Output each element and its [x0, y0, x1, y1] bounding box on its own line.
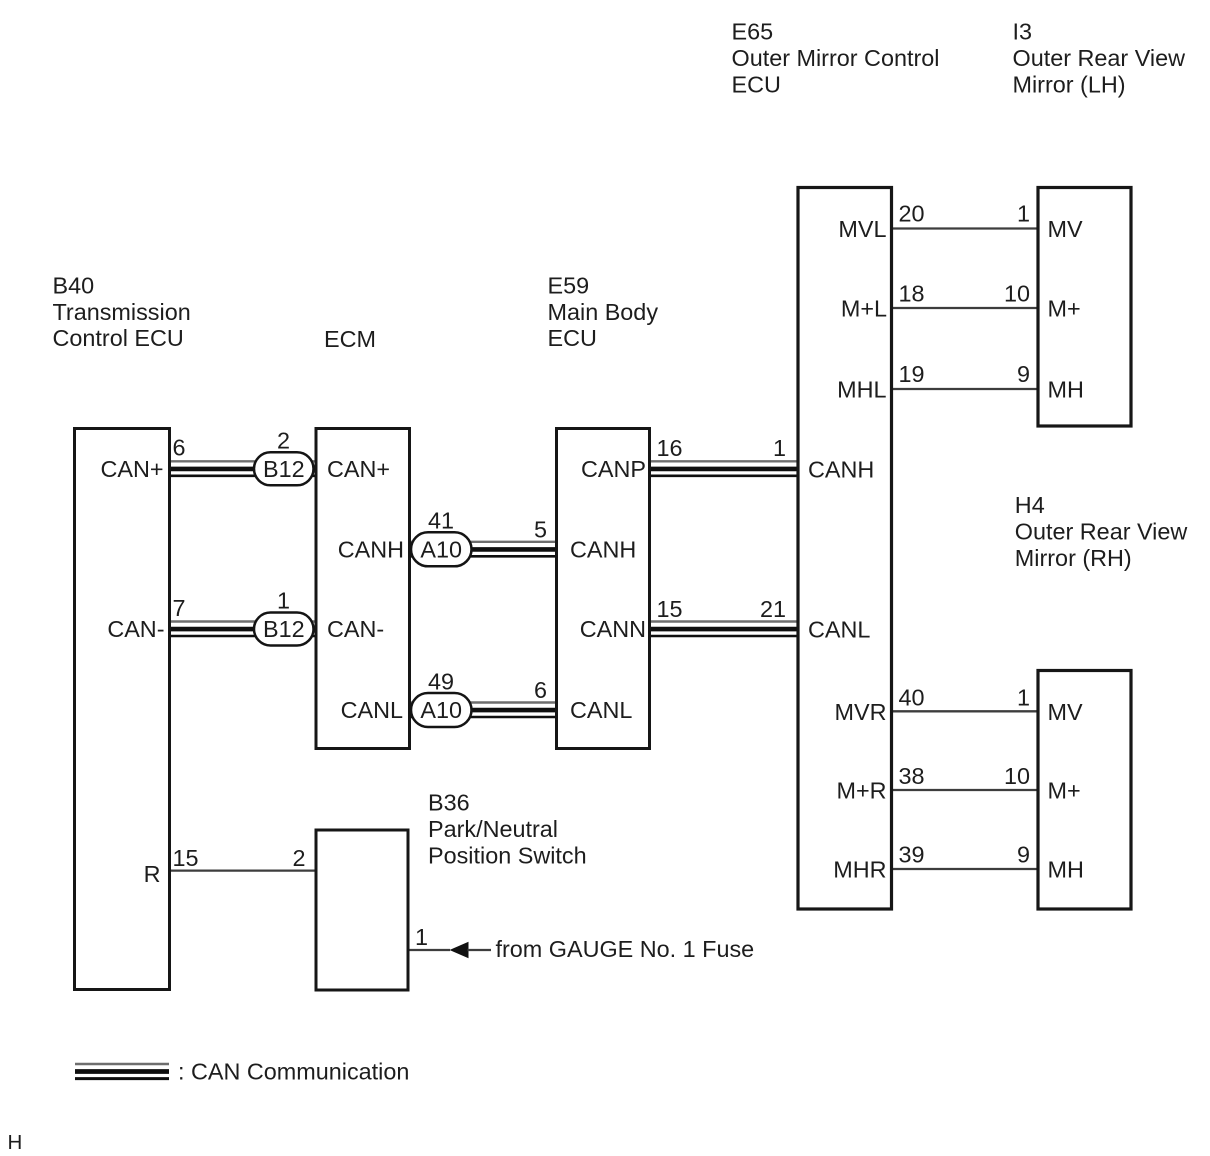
- label header I3 Outer Rear View Mirror (LH): [1013, 19, 1186, 98]
- svg-text:A10: A10: [420, 537, 462, 563]
- svg-text:49: 49: [428, 669, 454, 695]
- svg-text:R: R: [144, 861, 161, 887]
- svg-text:Transmission: Transmission: [53, 299, 191, 325]
- arrow from GAUGE No.1 Fuse: [450, 942, 469, 959]
- svg-text:18: 18: [899, 281, 925, 307]
- label header E65 Outer Mirror Control ECU: [732, 19, 940, 98]
- svg-text:Main Body: Main Body: [548, 299, 659, 325]
- svg-text:1: 1: [773, 435, 786, 461]
- svg-text:CAN-: CAN-: [327, 616, 384, 642]
- svg-text:MHL: MHL: [837, 377, 886, 403]
- wire CANP (E59 pin16 to E65 pin1 CANH, CAN bus triple line): [650, 461, 799, 476]
- svg-text:MVL: MVL: [838, 216, 886, 242]
- wire MVR (E65 pin40 to H4 pin1): [892, 710, 1039, 712]
- svg-text:Position Switch: Position Switch: [428, 843, 587, 869]
- wire CAN- (B40 pin7 to ECM pin1, CAN bus triple line): [170, 622, 317, 637]
- svg-text:Control ECU: Control ECU: [53, 325, 184, 351]
- svg-text:M+R: M+R: [836, 778, 886, 804]
- svg-text:Outer Rear View: Outer Rear View: [1013, 45, 1186, 71]
- wire from B36 pin1 to GAUGE fuse arrow: [408, 949, 450, 951]
- connector E65 Outer Mirror Control ECU box: [798, 188, 892, 910]
- svg-text:5: 5: [534, 517, 547, 543]
- label header H4 Outer Rear View Mirror (RH): [1015, 492, 1188, 571]
- svg-text:1: 1: [1017, 685, 1030, 711]
- connector I3 Outer Rear View Mirror LH box: [1038, 188, 1131, 427]
- svg-text:Mirror (RH): Mirror (RH): [1015, 545, 1132, 571]
- wire MHR (E65 pin39 to H4 pin9): [892, 868, 1039, 870]
- svg-text:ECM: ECM: [324, 326, 376, 352]
- legend CAN communication sample line: [75, 1064, 169, 1079]
- svg-text:MH: MH: [1048, 377, 1084, 403]
- svg-text:MH: MH: [1048, 857, 1084, 883]
- svg-text:15: 15: [173, 845, 199, 871]
- svg-text:M+L: M+L: [841, 296, 887, 322]
- svg-text:Outer Rear View: Outer Rear View: [1015, 519, 1188, 545]
- svg-text:E59: E59: [548, 273, 590, 299]
- svg-text:M+: M+: [1048, 778, 1081, 804]
- svg-text:B12: B12: [263, 616, 305, 642]
- wire CANN (E59 pin15 to E65 pin21 CANL, CAN bus triple line): [650, 622, 799, 637]
- svg-text:CANL: CANL: [808, 617, 870, 643]
- svg-text:CANH: CANH: [808, 457, 874, 483]
- svg-text:1: 1: [277, 588, 290, 614]
- svg-text:9: 9: [1017, 842, 1030, 868]
- wire CAN+ (B40 pin6 to ECM pin2, CAN bus triple line): [170, 461, 317, 476]
- svg-text:6: 6: [534, 677, 547, 703]
- svg-text:CAN+: CAN+: [327, 456, 390, 482]
- svg-text:CANL: CANL: [570, 697, 632, 723]
- svg-text:2: 2: [277, 427, 290, 453]
- svg-text:6: 6: [173, 435, 186, 461]
- wire M+L (E65 pin18 to I3 pin10): [892, 307, 1039, 309]
- wire CANL (ECM pin49 to E59 pin6, CAN bus triple line): [410, 703, 557, 718]
- svg-text:ECU: ECU: [732, 72, 781, 98]
- wire M+R (E65 pin38 to H4 pin10): [892, 789, 1039, 791]
- connector H4 Outer Rear View Mirror RH box: [1038, 671, 1131, 910]
- svg-text:B12: B12: [263, 456, 305, 482]
- connector E59 Main Body ECU box: [557, 429, 650, 749]
- svg-text:MV: MV: [1048, 216, 1083, 242]
- wire MVL (E65 pin20 to I3 pin1): [892, 227, 1039, 229]
- wire MHL (E65 pin19 to I3 pin9): [892, 388, 1039, 390]
- svg-text:Mirror (LH): Mirror (LH): [1013, 72, 1126, 98]
- wire CANH (ECM pin41 to E59 pin5, CAN bus triple line): [410, 542, 557, 557]
- connector junction B12 (CAN+ line): [254, 452, 314, 485]
- svg-text:from GAUGE No. 1 Fuse: from GAUGE No. 1 Fuse: [496, 936, 755, 962]
- label header B36 Park/Neutral Position Switch: [428, 790, 587, 869]
- connector B40 Transmission Control ECU box: [75, 429, 170, 990]
- svg-text:40: 40: [899, 685, 925, 711]
- svg-text:ECU: ECU: [548, 325, 597, 351]
- label header E59 Main Body ECU: [548, 273, 659, 352]
- svg-text:MV: MV: [1048, 699, 1083, 725]
- svg-text:2: 2: [292, 845, 305, 871]
- svg-text:CAN+: CAN+: [100, 456, 163, 482]
- svg-text:H4: H4: [1015, 492, 1045, 518]
- svg-text:: CAN Communication: : CAN Communication: [178, 1059, 409, 1085]
- connector B36 Park/Neutral Position Switch box: [316, 830, 408, 990]
- connector junction A10 (CANH line): [411, 532, 472, 566]
- svg-text:21: 21: [760, 596, 786, 622]
- svg-text:E65: E65: [732, 19, 774, 45]
- svg-text:H: H: [8, 1131, 23, 1154]
- wire R (B40 pin15 to B36 pin2): [170, 869, 317, 871]
- svg-text:9: 9: [1017, 361, 1030, 387]
- connector junction B12 (CAN- line): [254, 613, 314, 646]
- svg-text:41: 41: [428, 508, 454, 534]
- svg-text:1: 1: [415, 924, 428, 950]
- svg-text:A10: A10: [420, 697, 462, 723]
- svg-text:CANN: CANN: [580, 616, 646, 642]
- svg-text:CAN-: CAN-: [107, 616, 164, 642]
- svg-text:I3: I3: [1013, 19, 1033, 45]
- svg-text:CANL: CANL: [341, 697, 403, 723]
- svg-text:Park/Neutral: Park/Neutral: [428, 816, 558, 842]
- svg-text:CANH: CANH: [338, 537, 404, 563]
- svg-text:M+: M+: [1048, 296, 1081, 322]
- svg-text:39: 39: [899, 842, 925, 868]
- label header B40 Transmission Control ECU: [53, 273, 191, 352]
- svg-text:16: 16: [657, 435, 683, 461]
- svg-text:MHR: MHR: [833, 857, 886, 883]
- svg-text:20: 20: [899, 201, 925, 227]
- svg-text:CANH: CANH: [570, 537, 636, 563]
- svg-text:15: 15: [657, 596, 683, 622]
- svg-text:Outer Mirror Control: Outer Mirror Control: [732, 45, 940, 71]
- svg-text:1: 1: [1017, 201, 1030, 227]
- svg-text:38: 38: [899, 763, 925, 789]
- connector ECM box: [316, 429, 410, 749]
- connector junction A10 (CANL line): [411, 693, 472, 727]
- svg-text:19: 19: [899, 361, 925, 387]
- svg-text:10: 10: [1004, 281, 1030, 307]
- svg-text:B40: B40: [53, 273, 95, 299]
- svg-text:CANP: CANP: [581, 456, 646, 482]
- svg-text:10: 10: [1004, 763, 1030, 789]
- svg-text:7: 7: [173, 595, 186, 621]
- svg-text:MVR: MVR: [835, 699, 887, 725]
- svg-text:B36: B36: [428, 790, 470, 816]
